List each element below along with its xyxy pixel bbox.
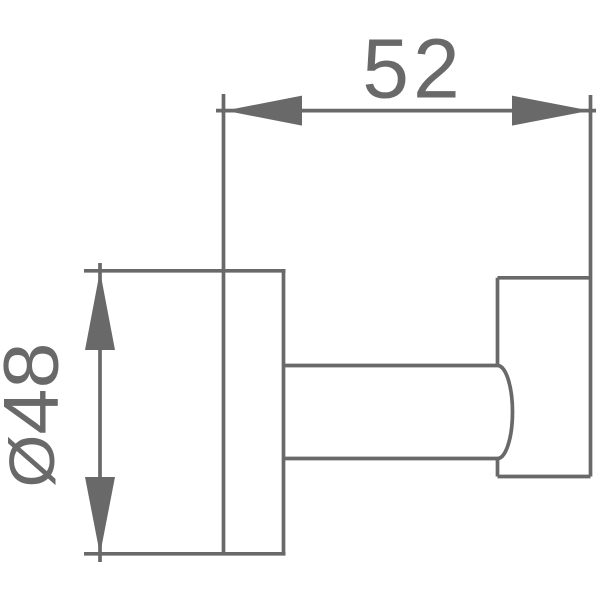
extension line left of 52 / wall plate left edge xyxy=(222,94,226,556)
svg-text:Ø48: Ø48 xyxy=(0,343,75,488)
knob left edge lower segment xyxy=(496,459,500,477)
extension line top of Ø48 / wall plate top edge xyxy=(84,269,286,273)
knob left edge upper segment xyxy=(496,278,500,366)
stem top line xyxy=(284,364,498,368)
dimension line 52 (horizontal) xyxy=(216,109,596,113)
wall plate right edge xyxy=(282,271,286,554)
stem end fillet arc xyxy=(498,366,513,459)
knob top edge xyxy=(498,276,591,280)
arrowhead left of 52 dimension xyxy=(225,96,302,126)
extension line bottom of Ø48 / wall plate bottom edge xyxy=(84,552,286,556)
arrowhead right of 52 dimension xyxy=(512,96,590,126)
knob bottom edge xyxy=(498,475,591,479)
stem bottom line xyxy=(284,457,498,461)
arrowhead top of Ø48 dimension xyxy=(85,271,115,350)
svg-text:52: 52 xyxy=(362,22,463,116)
extension line right of 52 / hook knob right edge xyxy=(589,95,593,477)
dimension line Ø48 (vertical) xyxy=(98,263,102,562)
arrowhead bottom of Ø48 dimension xyxy=(85,477,115,555)
